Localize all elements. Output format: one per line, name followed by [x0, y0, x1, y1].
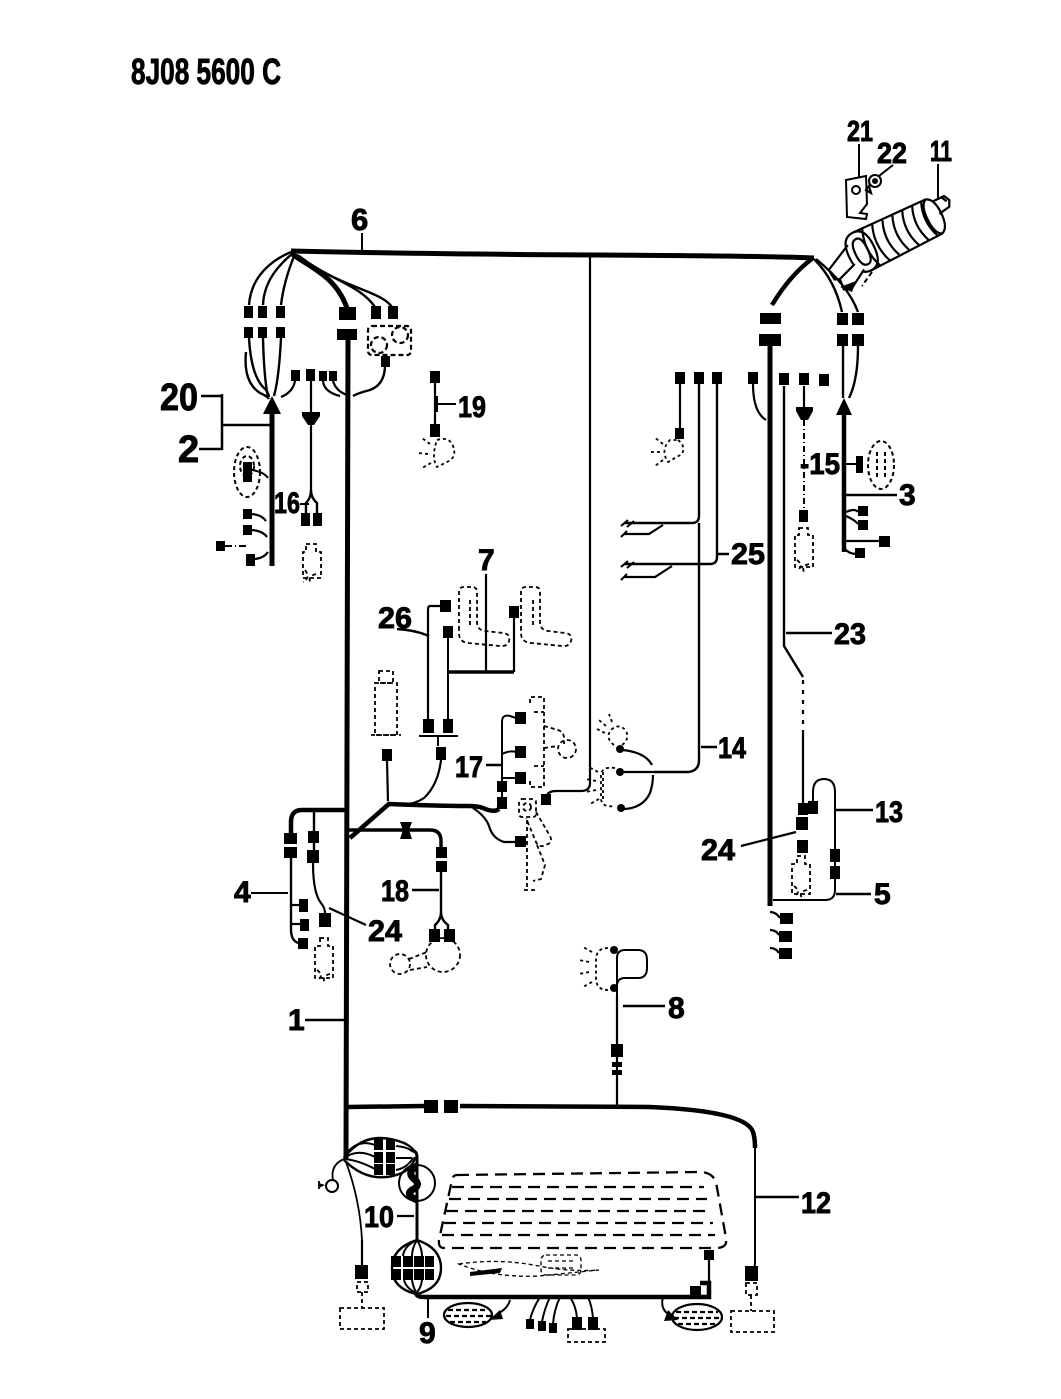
- wire sq4 to trunk: [333, 381, 347, 395]
- wire branch4 thick: [291, 810, 348, 833]
- wire pair down to arrow: [843, 346, 858, 398]
- ghost lead 12: [731, 1283, 774, 1332]
- wiper motor wire: [413, 1151, 417, 1240]
- svg-text:11: 11: [930, 136, 952, 168]
- svg-text:24: 24: [701, 834, 735, 867]
- ground eyelet square: [216, 541, 225, 551]
- terminal square 15: [799, 510, 808, 522]
- bracket part 21: [846, 176, 867, 219]
- stub 15: [846, 463, 858, 465]
- grommet squares lower: [391, 1256, 401, 1267]
- wire link to junction: [387, 761, 388, 801]
- wire 26a square bottom: [423, 719, 434, 733]
- bowtie connectors top edge: [424, 1100, 438, 1113]
- wire bulb1: [622, 750, 652, 765]
- wire 7 vertical: [485, 574, 487, 672]
- connector pair right: [837, 313, 848, 325]
- stub long 3: [846, 540, 880, 542]
- torn wire ticks: [621, 520, 634, 580]
- connector square under bar: [436, 747, 446, 760]
- square 24L: [319, 913, 331, 927]
- stub b4b: [291, 923, 300, 925]
- wire branch18: [348, 830, 441, 848]
- wire sq3 to trunk: [323, 381, 340, 396]
- connector main trunk block: [339, 307, 356, 320]
- leader 14: [701, 746, 717, 749]
- squares below bracket: [497, 781, 507, 792]
- wire 19 square bottom: [430, 424, 440, 437]
- wire 8 vertical: [616, 995, 618, 1107]
- leader 11: [937, 164, 939, 200]
- wire fan right thin1: [814, 259, 842, 312]
- wire right trunk: [768, 346, 773, 906]
- wire lamp to trunk: [252, 470, 268, 478]
- wire fanout trunk thick: [291, 253, 347, 308]
- lamp socket dashed oval: [234, 447, 260, 497]
- fuse holder ghost dashed: [303, 544, 321, 582]
- fuse ghost 13: [792, 856, 810, 898]
- arrow into boot: [862, 272, 872, 286]
- connector squares row2 left: [244, 327, 253, 338]
- wire stub b: [252, 530, 267, 537]
- wire stub c: [255, 552, 268, 559]
- svg-text:6: 6: [351, 202, 368, 237]
- bulb ghost 19: [418, 438, 454, 468]
- notch square: [690, 1286, 701, 1296]
- svg-text:17: 17: [455, 751, 483, 784]
- wiper arm ghost: [459, 1255, 599, 1276]
- leader 21: [858, 144, 860, 178]
- stub square b: [243, 525, 252, 535]
- wire 16 fork: [306, 490, 317, 514]
- svg-text:7: 7: [478, 544, 495, 577]
- squares 8: [611, 1044, 623, 1057]
- grommet squares upper: [374, 1139, 383, 1150]
- svg-text:21: 21: [847, 116, 873, 148]
- key ghost: [519, 799, 551, 890]
- leader 25: [718, 553, 729, 556]
- ignition switch ghost: [530, 697, 576, 787]
- svg-text:9: 9: [419, 1317, 436, 1350]
- bolt 22: [869, 175, 881, 187]
- bowtie connector 18: [400, 822, 412, 839]
- svg-text:8J08 5600 C: 8J08 5600 C: [131, 51, 281, 92]
- svg-text:12: 12: [801, 1187, 831, 1220]
- wire 25b tail: [624, 566, 672, 577]
- wire 15 drop square: [803, 386, 805, 408]
- fuse ghost 15: [795, 528, 813, 572]
- leader 4: [251, 892, 288, 894]
- dash-dot wire 15: [803, 420, 805, 510]
- stub fork 3: [846, 510, 858, 524]
- wire bend to arrow: [246, 352, 269, 399]
- wire 23 dashes: [802, 680, 804, 730]
- squares 18: [436, 847, 447, 858]
- wire left trunk: [346, 340, 348, 1160]
- wire harness trunk top: [291, 251, 814, 258]
- grommet right wire: [662, 1297, 668, 1314]
- stub square a: [243, 509, 252, 519]
- wire sq1 to node: [281, 381, 295, 397]
- eyelet wire: [332, 1159, 344, 1180]
- connector bars right trunk: [760, 313, 781, 324]
- lamp element bar: [243, 462, 252, 482]
- connector squares right of trunk: [371, 306, 381, 319]
- connector 23 end square: [798, 803, 808, 815]
- wire middle vertical: [547, 256, 590, 795]
- wire 24L lower: [313, 863, 325, 913]
- leader 26: [397, 629, 429, 636]
- svg-text:14: 14: [718, 732, 746, 765]
- stub 17 low: [502, 777, 516, 779]
- wire branch 3 trunk: [842, 412, 847, 552]
- wire 17 harness horizontal: [389, 804, 499, 811]
- wire 16 top square: [306, 369, 315, 381]
- lamp ghost 15: [868, 441, 894, 489]
- leader 18: [412, 889, 439, 892]
- trunk to fan point: [345, 1125, 347, 1159]
- svg-text:-15: -15: [800, 448, 840, 481]
- fork square left: [301, 513, 310, 526]
- svg-text:23: 23: [834, 618, 866, 651]
- connector ghost bottom: [568, 1329, 605, 1342]
- svg-text:20: 20: [160, 377, 198, 419]
- ignition terminal square: [515, 836, 526, 847]
- fuse ghost 24L: [315, 938, 333, 983]
- leader 13: [836, 809, 873, 812]
- leader 3: [846, 494, 897, 497]
- stub b4c: [298, 938, 308, 949]
- svg-text:5: 5: [874, 878, 891, 911]
- wire fan right thick: [772, 258, 813, 305]
- wire branch 2 trunk: [270, 410, 275, 566]
- wire 23 vertical: [784, 386, 803, 677]
- wire 25a: [624, 384, 699, 523]
- connector bar under 26: [419, 736, 458, 746]
- wire branch4 thin: [291, 858, 298, 943]
- leader 19: [437, 396, 456, 412]
- fan squares: [526, 1319, 534, 1329]
- relay terminal: [381, 356, 390, 367]
- stub short 3: [844, 548, 856, 554]
- wire fanout left 2: [263, 253, 293, 305]
- leader 24 left: [329, 908, 366, 925]
- svg-text:2: 2: [178, 429, 199, 471]
- squares on 13 loop: [830, 849, 840, 862]
- leader 24 right: [741, 832, 796, 846]
- branch4 connector stack: [284, 833, 297, 844]
- svg-text:13: 13: [875, 796, 903, 829]
- stalk switch ghost left: [459, 587, 509, 646]
- wire bulb drop: [679, 384, 681, 428]
- fork squares 18: [429, 929, 440, 942]
- leader 5: [836, 893, 871, 896]
- wire 23 lower: [802, 730, 804, 803]
- wire 26a: [428, 606, 440, 720]
- wire thin to ignition: [473, 808, 516, 842]
- connector T arrow 16: [302, 412, 320, 425]
- wire 25b: [624, 384, 717, 564]
- connector row squares: [675, 372, 685, 384]
- leader 8: [623, 1005, 665, 1008]
- leader 1: [305, 1019, 344, 1022]
- svg-text:8: 8: [668, 992, 685, 1025]
- connector small squares mid row: [291, 370, 300, 381]
- washer pump ghost: [390, 938, 460, 974]
- wiper blade solid: [470, 1268, 502, 1276]
- wire bulb3: [624, 775, 653, 809]
- grommet ellipse left: [444, 1303, 492, 1327]
- connector 24 stack: [796, 817, 808, 830]
- rear glass ghost: [439, 1172, 726, 1248]
- wire left col down 1: [249, 338, 269, 397]
- leader 16: [300, 503, 309, 505]
- leader 17: [486, 764, 501, 767]
- svg-text:4: 4: [234, 876, 251, 909]
- wire from bar to junction: [396, 760, 441, 804]
- wire 24L vertical: [313, 810, 315, 855]
- wire 7 horizontal: [448, 670, 514, 674]
- battery ghost left: [340, 1282, 384, 1329]
- dome lamp dots: [610, 946, 618, 954]
- wire left col down 3: [274, 338, 281, 396]
- conduit boot 11: [819, 188, 966, 294]
- leader 6: [361, 233, 363, 251]
- grommet left wire: [499, 1300, 510, 1313]
- connector T arrow 15: [796, 407, 813, 420]
- wire fanout left 1: [249, 252, 291, 305]
- grommet fan upper: [344, 1138, 415, 1158]
- ghost switch terminal: [509, 606, 519, 618]
- wire fan bottom: [530, 1297, 593, 1324]
- bulb ghost 14a: [597, 714, 627, 745]
- leader 9: [427, 1298, 429, 1318]
- loop 13: [773, 779, 835, 900]
- wire 25a tail: [624, 525, 663, 534]
- wire 26b: [447, 638, 449, 719]
- grommet ellipse right: [672, 1304, 722, 1330]
- stalk switch ghost right: [521, 587, 571, 646]
- arrow into harness right: [836, 398, 852, 415]
- ground lead: [346, 1162, 362, 1240]
- stub b4a: [291, 904, 300, 906]
- svg-text:16: 16: [274, 487, 300, 520]
- wire 14 vertical: [654, 523, 699, 772]
- bracket 17: [502, 716, 516, 808]
- wire 752 drop: [753, 384, 766, 420]
- wire left col down 2: [263, 338, 268, 397]
- connector 12 end: [745, 1266, 758, 1281]
- wire relay to trunk: [353, 367, 385, 396]
- fork square right: [313, 513, 322, 526]
- stub 17 mid: [502, 751, 516, 754]
- wire bulb2: [624, 771, 654, 773]
- fusible link terminal: [382, 749, 392, 761]
- grommet fan lower: [392, 1240, 417, 1294]
- svg-text:1: 1: [288, 1004, 305, 1037]
- dash-dot wire: [225, 545, 247, 547]
- connector squares row1 left: [244, 306, 253, 318]
- wire 19 square top: [430, 371, 440, 383]
- wire ghost2 drop: [513, 618, 515, 672]
- relay flasher dashed: [368, 326, 411, 355]
- leader 22: [879, 165, 893, 176]
- wire 26b square: [443, 626, 453, 638]
- motor glyph: [409, 1166, 417, 1200]
- bottom harness lower edge: [416, 1283, 709, 1297]
- wiper motor circle: [399, 1165, 435, 1201]
- fusible link ghost: [371, 671, 401, 735]
- wire fan right thin2: [816, 259, 858, 312]
- bracket hole: [852, 186, 860, 194]
- svg-text:3: 3: [899, 479, 916, 512]
- wire 26a square: [440, 600, 451, 612]
- wire fanout right 1: [297, 255, 375, 307]
- svg-text:19: 19: [458, 391, 486, 424]
- wire 19: [434, 383, 436, 424]
- bulb dots 14: [616, 745, 624, 753]
- wire 16 vertical: [310, 381, 312, 490]
- squares 17: [515, 712, 526, 724]
- wire 18 lower: [435, 872, 448, 931]
- svg-text:25: 25: [731, 538, 765, 571]
- glass connector: [704, 1250, 714, 1260]
- bottom harness top edge: [348, 1106, 424, 1107]
- eyelet: [326, 1180, 338, 1192]
- svg-text:10: 10: [364, 1201, 394, 1234]
- wire 26b square bottom: [443, 719, 453, 733]
- bracket 20-2: [199, 394, 270, 450]
- leader 10: [397, 1215, 414, 1217]
- leader 23: [786, 632, 832, 635]
- svg-text:24: 24: [368, 915, 402, 948]
- arrow into harness left: [263, 396, 281, 414]
- bulb ghost left: [649, 437, 683, 466]
- wire fanout left 3: [281, 254, 295, 305]
- right edge 12: [753, 1148, 755, 1270]
- bulb ghost 14b: [586, 767, 615, 806]
- dome lamp loop: [617, 950, 647, 995]
- trunk bottom stubs: [770, 912, 780, 953]
- ground square: [355, 1265, 368, 1279]
- ignition ghost terminal: [541, 794, 551, 805]
- junction diagonal: [350, 803, 390, 838]
- terminal square c: [246, 554, 255, 566]
- wire fanout right 2: [299, 256, 392, 307]
- dome lamp ghost: [579, 947, 608, 990]
- wire stub a: [252, 514, 266, 521]
- leader 12: [756, 1196, 799, 1199]
- svg-text:18: 18: [381, 875, 409, 908]
